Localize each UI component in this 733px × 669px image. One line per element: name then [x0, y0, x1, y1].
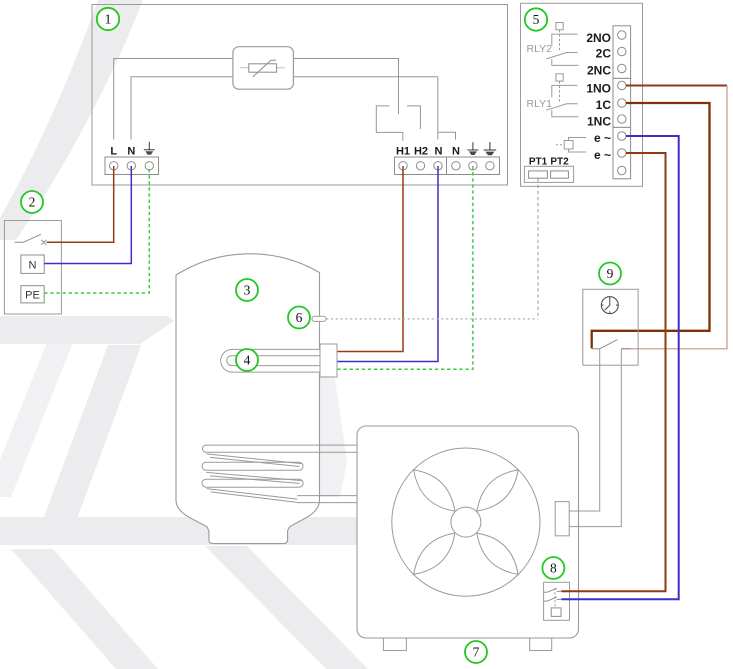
foot left — [383, 638, 406, 651]
svg-text:RLY2: RLY2 — [527, 43, 553, 55]
svg-text:4: 4 — [244, 353, 251, 368]
svg-text:N: N — [127, 146, 135, 158]
svg-text:PE: PE — [25, 290, 40, 302]
wire blue N to element — [337, 166, 438, 362]
timer switch — [592, 340, 631, 349]
wire green earth to element — [337, 166, 473, 369]
terminal N box — [21, 255, 44, 273]
coil tube top to heat pump — [202, 445, 357, 452]
box 8 heat pump switch — [544, 582, 570, 620]
svg-text:8: 8 — [550, 561, 557, 576]
svg-text:H2: H2 — [414, 146, 428, 158]
wire dotted sensor line — [326, 318, 538, 320]
earth symbol left strip — [144, 142, 155, 155]
breaker switch — [15, 234, 47, 245]
box 5 heat pump controller — [521, 3, 643, 186]
badge 1 — [97, 8, 119, 30]
earth symbol — [484, 142, 497, 155]
heat pump connector — [555, 502, 569, 536]
svg-text:e ~: e ~ — [594, 131, 611, 145]
terminal PE box — [21, 286, 44, 303]
wire brown 1NO to timer — [626, 85, 727, 87]
svg-text:1C: 1C — [596, 98, 612, 112]
watermark background shapes — [0, 0, 368, 669]
wire N internal — [131, 77, 438, 140]
sensor 6 probe — [312, 316, 326, 321]
svg-text:5: 5 — [533, 12, 540, 27]
coil tube middle — [202, 462, 303, 470]
wire blue N supply — [44, 166, 131, 264]
svg-text:PT1: PT1 — [529, 157, 548, 168]
wire L internal — [114, 59, 233, 140]
badge 8 — [542, 557, 564, 579]
terminal strip L N PE — [105, 157, 159, 175]
earth symbol — [467, 142, 478, 155]
contact right open — [407, 106, 420, 129]
wire blue into box 8 — [562, 598, 580, 600]
wire brown L supply — [47, 166, 114, 242]
badge 7 — [465, 641, 487, 663]
fan blade SE — [477, 533, 518, 574]
switch contacts box 8 — [544, 588, 562, 608]
svg-text:2: 2 — [29, 195, 36, 210]
relay RLY1 — [546, 74, 578, 117]
badge 2 — [21, 191, 43, 213]
badge 5 — [525, 8, 547, 30]
coil tube lower — [202, 479, 303, 487]
wire brown into box 8 — [562, 590, 580, 592]
svg-text:9: 9 — [607, 266, 614, 281]
fan blade NW — [414, 470, 455, 511]
wire pole from thermostat — [293, 59, 398, 115]
terminal strip N PE PE — [447, 157, 500, 175]
svg-text:2NO: 2NO — [586, 31, 611, 45]
svg-text:6: 6 — [296, 310, 303, 325]
terminal block 2NO 2C 2NC — [613, 26, 631, 79]
terminal strip H1 H2 N — [395, 157, 447, 175]
wire dashed PT1 sensor — [537, 179, 539, 319]
thermostat box U2 — [233, 47, 294, 89]
wire N branch to terminals — [438, 77, 456, 140]
svg-text:N: N — [435, 146, 443, 158]
fan blade SW — [414, 533, 455, 574]
tank 3 — [176, 254, 320, 544]
terminal block e e — [613, 127, 631, 178]
svg-text:PT2: PT2 — [550, 157, 569, 168]
svg-text:1NC: 1NC — [587, 115, 611, 129]
svg-text:H1: H1 — [396, 146, 410, 158]
fan circle — [392, 448, 540, 596]
element flange — [320, 344, 337, 377]
fan hub — [451, 507, 481, 537]
svg-text:e ~: e ~ — [594, 148, 611, 162]
foot right — [530, 638, 552, 651]
badge 4 — [236, 349, 258, 371]
wire gray timer feed 2 — [569, 349, 621, 527]
coil pipe bottom to heat pump — [297, 496, 357, 503]
svg-text:L: L — [110, 146, 117, 158]
contact left to H1 — [376, 106, 403, 141]
svg-text:1: 1 — [105, 12, 112, 27]
wire brown 1C to timer — [592, 103, 710, 348]
svg-text:RLY1: RLY1 — [527, 98, 553, 110]
svg-text:N: N — [452, 146, 460, 158]
svg-text:2C: 2C — [596, 47, 612, 61]
wire gray timer feed 1 — [569, 349, 600, 511]
svg-text:7: 7 — [473, 645, 480, 660]
PT terminals — [524, 166, 573, 182]
heat pump unit 7 — [357, 426, 579, 638]
svg-text:1NO: 1NO — [586, 82, 611, 96]
relay RLY2 — [546, 23, 578, 66]
e coil component — [556, 138, 586, 153]
svg-text:3: 3 — [244, 283, 251, 298]
heating element 4 — [221, 349, 321, 372]
svg-text:2NC: 2NC — [587, 64, 611, 78]
clock icon — [601, 297, 618, 314]
svg-text:N: N — [29, 260, 37, 272]
coil square box 8 — [551, 608, 561, 617]
coil heat exchanger — [207, 454, 302, 503]
terminal block 1NO 1C 1NC — [613, 78, 631, 127]
badge 6 — [288, 307, 310, 329]
box 1 controller enclosure — [92, 5, 508, 186]
box 2 supply panel — [4, 221, 61, 315]
wire brown e to heat pump — [562, 153, 666, 591]
wire green PE supply — [44, 166, 149, 293]
wire blue e to heat pump — [562, 136, 679, 599]
badge 3 — [236, 279, 258, 301]
wire brown H1 to element — [337, 166, 403, 352]
fan blade NE — [477, 470, 518, 511]
badge 9 — [599, 263, 621, 285]
box 9 timer — [583, 289, 638, 365]
